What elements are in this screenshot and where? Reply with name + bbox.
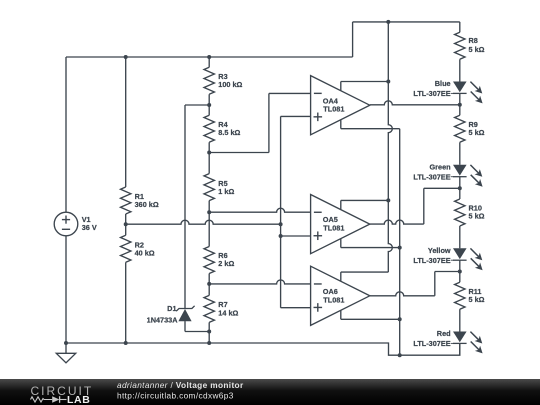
svg-text:D1: D1 [167, 304, 176, 313]
svg-text:LTL-307EE: LTL-307EE [413, 339, 450, 348]
svg-text:5 kΩ: 5 kΩ [469, 45, 485, 54]
svg-text:Blue: Blue [435, 79, 451, 88]
svg-text:100 kΩ: 100 kΩ [218, 80, 242, 89]
svg-text:adriantanner / Voltage monitor: adriantanner / Voltage monitor [117, 380, 244, 390]
svg-text:LTL-307EE: LTL-307EE [413, 172, 450, 181]
svg-text:Green: Green [430, 163, 451, 172]
svg-text:40 kΩ: 40 kΩ [135, 249, 155, 258]
svg-text:LAB: LAB [67, 394, 90, 405]
svg-text:36 V: 36 V [82, 223, 97, 232]
svg-text:Red: Red [437, 329, 451, 338]
svg-text:TL081: TL081 [323, 224, 344, 233]
svg-text:5 kΩ: 5 kΩ [469, 295, 485, 304]
svg-text:1N4733A: 1N4733A [147, 316, 179, 325]
svg-text:360 kΩ: 360 kΩ [135, 200, 159, 209]
svg-text:5 kΩ: 5 kΩ [469, 128, 485, 137]
svg-text:R8: R8 [469, 36, 478, 45]
svg-text:2 kΩ: 2 kΩ [218, 259, 234, 268]
svg-text:8.5 kΩ: 8.5 kΩ [218, 128, 240, 137]
svg-text:http://circuitlab.com/cdxw6p3: http://circuitlab.com/cdxw6p3 [117, 390, 234, 400]
svg-text:5 kΩ: 5 kΩ [469, 212, 485, 221]
svg-text:LTL-307EE: LTL-307EE [413, 89, 450, 98]
svg-text:Yellow: Yellow [428, 246, 451, 255]
svg-text:TL081: TL081 [323, 105, 344, 114]
svg-text:14 kΩ: 14 kΩ [218, 308, 238, 317]
svg-text:1 kΩ: 1 kΩ [218, 187, 234, 196]
svg-text:LTL-307EE: LTL-307EE [413, 256, 450, 265]
svg-text:TL081: TL081 [323, 295, 344, 304]
